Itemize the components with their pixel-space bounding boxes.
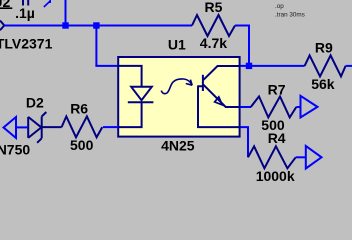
wire: D2 to R6 bbox=[42, 126, 62, 128]
wire: LED cathode pin out to R6 bbox=[103, 126, 118, 128]
svg-text:.tran 30ms: .tran 30ms bbox=[275, 12, 305, 19]
resistor R6 bbox=[62, 116, 103, 137]
op-amp U2 output tip (cut off at left edge) bbox=[0, 21, 4, 31]
transistor inside U1 bbox=[202, 75, 204, 91]
capacitor C (plates, cut off at top) bbox=[23, 0, 28, 6]
resistor R4 bbox=[248, 146, 296, 168]
svg-text:D2: D2 bbox=[26, 94, 44, 110]
svg-text:1N750: 1N750 bbox=[0, 142, 30, 158]
svg-text:R9: R9 bbox=[315, 39, 333, 55]
wire: op-amp output row (top) bbox=[4, 25, 192, 27]
emitter arrow bbox=[215, 97, 223, 105]
svg-text:U1: U1 bbox=[168, 36, 186, 52]
LED inside U1 bbox=[118, 66, 142, 86]
port arrow fragment (top, cut) bbox=[44, 0, 50, 7]
svg-text:.1µ: .1µ bbox=[15, 5, 35, 21]
svg-text:TLV2371: TLV2371 bbox=[0, 36, 53, 52]
zener diode D2 bbox=[28, 117, 41, 138]
svg-text:R7: R7 bbox=[268, 82, 286, 98]
svg-text:56k: 56k bbox=[311, 76, 335, 92]
port arrow (R7 output) bbox=[301, 96, 318, 118]
wire: base pin down to R4 bbox=[241, 127, 249, 157]
clipped marker bar under U2 bbox=[0, 7, 12, 9]
base stub and route to pin bbox=[197, 86, 239, 127]
svg-text:R5: R5 bbox=[205, 0, 223, 15]
resistor R5 bbox=[192, 15, 235, 36]
wire: into LED anode pin bbox=[95, 65, 117, 67]
svg-text:1000k: 1000k bbox=[256, 168, 295, 184]
svg-text:4.7k: 4.7k bbox=[200, 35, 227, 51]
svg-text:R6: R6 bbox=[70, 100, 88, 116]
node C junction bbox=[246, 63, 252, 69]
node B junction bbox=[93, 22, 99, 28]
resistor R7 bbox=[251, 96, 296, 117]
port arrow (input, points left) bbox=[4, 117, 17, 138]
wire: collector pin to junction C and on to R9 bbox=[241, 65, 305, 67]
port arrow (R4 output) bbox=[306, 146, 322, 169]
optocoupler U1 body bbox=[118, 57, 239, 137]
wire: down from junction B bbox=[95, 26, 97, 66]
svg-text:500: 500 bbox=[70, 137, 94, 153]
wire: emitter pin to R7 bbox=[241, 106, 252, 108]
svg-text:4N25: 4N25 bbox=[161, 138, 195, 154]
emitter bbox=[204, 85, 240, 107]
wire: R7 to port bbox=[296, 106, 300, 108]
wire: R5 right lead and drop to collector row bbox=[235, 26, 249, 66]
wire: R4 to port bbox=[296, 156, 306, 158]
svg-text:R4: R4 bbox=[268, 130, 286, 146]
collector bbox=[204, 66, 240, 80]
svg-text:.op: .op bbox=[275, 3, 284, 10]
coupling squiggle arrow bbox=[161, 79, 192, 94]
resistor R9 bbox=[305, 55, 346, 76]
wire: up from junction A to capacitor (cut at top) bbox=[65, 0, 67, 26]
wire: port to D2 bbox=[16, 126, 28, 128]
node A junction bbox=[62, 22, 68, 28]
wire: R9 to right edge bbox=[346, 65, 352, 67]
